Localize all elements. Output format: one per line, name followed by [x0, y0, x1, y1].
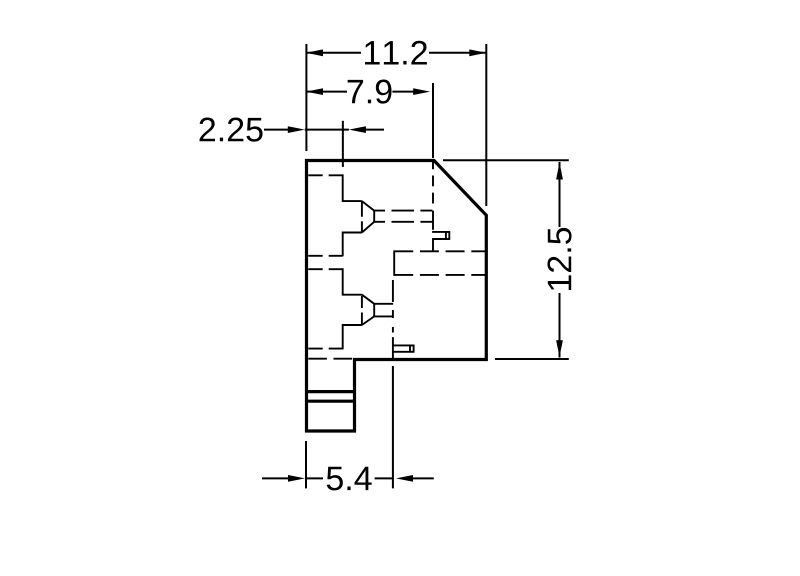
hidden channel bottom — [394, 274, 486, 276]
cavity1 funnel upper diagonal — [362, 201, 374, 211]
dim 7.9 line right — [392, 91, 414, 93]
dim 5.4 arrow left — [288, 475, 305, 482]
cavity2 mouth hidden vertical — [361, 296, 363, 324]
upper pin notch — [445, 232, 447, 239]
dim 12.5 extension top — [443, 159, 569, 161]
dim 2.25 tail right — [365, 129, 384, 131]
cavity1 mouth hidden vertical — [361, 202, 363, 232]
leg hidden top edge — [308, 358, 353, 360]
hidden channel left end — [393, 250, 395, 275]
dim 5.4 tail right — [412, 477, 434, 479]
cavity2 left wall lower — [343, 325, 362, 349]
dim 2.25 arrow left — [288, 126, 305, 133]
cavity1 slot hidden bottom — [374, 221, 432, 223]
dim 7.9 extension right — [432, 83, 434, 158]
dim 2.25 arrow right — [349, 126, 366, 133]
cavity2 hidden top edge — [308, 268, 342, 270]
dim 5.4 line right stub — [375, 477, 393, 479]
dim 12.5 arrow bottom — [556, 340, 563, 357]
dim 12.5 text — [547, 228, 571, 290]
cavity2 hidden bottom edge — [308, 348, 342, 350]
contact wall lower segment — [432, 239, 434, 251]
dim 5.4 text — [327, 467, 372, 491]
cavity2 slot top — [374, 303, 393, 305]
upper pin top — [432, 231, 449, 233]
lower pin top — [393, 344, 414, 346]
dim 2.25 leader line — [264, 129, 289, 131]
dim 11.2 extension right — [485, 44, 487, 206]
cavity2 funnel upper diagonal — [362, 295, 374, 304]
pin edge vertical — [392, 337, 394, 358]
dim 5.4 extension left — [305, 441, 307, 488]
dim 11.2 arrow right — [469, 49, 486, 56]
dim 12.5 line bottom — [559, 293, 561, 358]
pin centerline — [392, 280, 394, 337]
dim 12.5 arrow top — [556, 162, 563, 179]
dim 5.4 line left stub — [306, 477, 323, 479]
contact centerline upper — [432, 162, 434, 204]
dim 5.4 tail left — [262, 477, 289, 479]
lower pin notch — [409, 345, 411, 351]
cavity1 left wall lower — [343, 233, 362, 257]
dim 7.9 text — [348, 80, 392, 104]
dim 11.2 line left — [306, 52, 361, 54]
dim 11.2 text — [365, 41, 427, 65]
dim 2.25 text — [200, 118, 263, 142]
cavity2 slot bottom — [374, 315, 392, 317]
dim 5.4 arrow right — [396, 475, 413, 482]
hidden channel top — [394, 250, 486, 252]
body outline — [307, 161, 487, 432]
dim 12.5 line top — [559, 162, 561, 227]
leg bar upper — [305, 390, 356, 393]
dim 11.2 extension left — [305, 44, 307, 151]
cavity1 funnel throat — [373, 211, 375, 222]
cavity1 funnel lower diagonal — [362, 222, 374, 233]
dim 11.2 line right — [429, 52, 486, 54]
dim 7.9 line left — [306, 91, 347, 93]
upper pin end — [448, 231, 450, 240]
cavity2 left wall upper — [343, 268, 362, 294]
leg bar lower — [305, 400, 356, 403]
cavity1 left wall upper — [343, 174, 362, 201]
dim 5.4 extension right — [392, 366, 394, 488]
dim 7.9 arrow right — [413, 88, 430, 95]
contact wall upper segment — [432, 211, 434, 230]
dim 2.25 line — [305, 129, 349, 131]
cavity1 slot hidden top — [374, 210, 432, 212]
dim 11.2 arrow left — [306, 49, 323, 56]
cavity2 funnel lower diagonal — [362, 316, 374, 325]
dim 2.25 extension — [342, 121, 344, 167]
dim 12.5 extension bottom — [495, 358, 569, 360]
dim 7.9 arrow left — [306, 88, 323, 95]
upper pin bottom — [432, 238, 449, 240]
lower pin bottom — [393, 351, 414, 353]
cavity1 hidden bottom edge — [308, 255, 342, 257]
cavity1 hidden top edge — [308, 174, 342, 176]
cavity2 funnel throat — [373, 304, 375, 317]
lower pin end — [413, 345, 415, 353]
